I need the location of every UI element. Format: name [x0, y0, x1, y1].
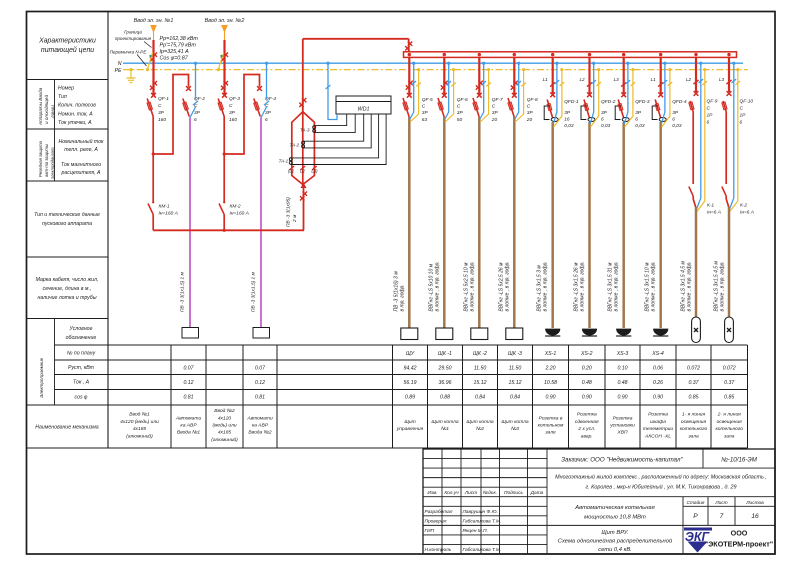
svg-text:cos φ: cos φ — [75, 395, 89, 401]
svg-text:1- я линия: 1- я линия — [682, 412, 706, 418]
svg-text:Лист: Лист — [714, 500, 727, 506]
svg-text:0.81: 0.81 — [183, 395, 193, 401]
svg-text:QF-10: QF-10 — [740, 99, 754, 105]
svg-text:авар.: авар. — [581, 434, 593, 439]
svg-text:№ по плану: № по плану — [67, 351, 96, 357]
svg-text:ЩК -3: ЩК -3 — [508, 351, 522, 357]
svg-text:Номер: Номер — [58, 86, 74, 92]
svg-text:50: 50 — [457, 117, 463, 123]
svg-text:0.12: 0.12 — [255, 380, 265, 386]
svg-text:(алюминий): (алюминий) — [211, 436, 238, 443]
svg-text:3Р: 3Р — [564, 110, 571, 116]
svg-text:Подпись: Подпись — [504, 490, 524, 496]
svg-text:Электроприемник: Электроприемник — [39, 357, 44, 398]
svg-text:Ввод №1: Ввод №1 — [129, 412, 150, 418]
svg-text:3Р: 3Р — [492, 110, 499, 116]
svg-text:установки: установки — [609, 424, 635, 429]
svg-text:в лотке , в тр. гофр.: в лотке , в тр. гофр. — [469, 261, 475, 311]
svg-text:0.07: 0.07 — [255, 366, 266, 372]
svg-text:зале: зале — [544, 431, 556, 436]
svg-text:20: 20 — [491, 117, 498, 123]
svg-text:в лотке , в тр. гофр.: в лотке , в тр. гофр. — [651, 261, 657, 311]
svg-text:ХS-4: ХS-4 — [651, 351, 664, 357]
svg-text:Многоэтажный жилой комплекс ,: Многоэтажный жилой комплекс , расположен… — [555, 474, 767, 481]
svg-text:6: 6 — [601, 117, 604, 123]
svg-text:0,03: 0,03 — [635, 123, 645, 129]
svg-text:N: N — [118, 61, 122, 67]
svg-text:QF-6: QF-6 — [457, 97, 468, 103]
svg-text:10.58: 10.58 — [544, 380, 557, 386]
svg-text:С: С — [707, 106, 711, 112]
svg-text:0.37: 0.37 — [724, 380, 735, 386]
svg-text:4х185: 4х185 — [133, 426, 147, 432]
svg-text:0.88: 0.88 — [440, 395, 450, 401]
svg-text:0,03: 0,03 — [601, 123, 611, 129]
svg-text:3Р: 3Р — [158, 110, 165, 116]
svg-text:WD1: WD1 — [358, 107, 370, 113]
svg-text:Габсаликова Т.М.: Габсаликова Т.М. — [463, 518, 502, 524]
svg-text:L3: L3 — [614, 77, 620, 82]
svg-text:0.072: 0.072 — [687, 366, 700, 372]
svg-text:3Р: 3Р — [422, 110, 429, 116]
svg-text:7: 7 — [720, 513, 724, 520]
svg-text:20: 20 — [526, 117, 533, 123]
svg-text:L1: L1 — [543, 77, 549, 82]
svg-text:ПВ -3 3(1х95): ПВ -3 3(1х95) — [286, 197, 292, 227]
svg-text:2 х усл.: 2 х усл. — [577, 426, 595, 432]
svg-text:0.90: 0.90 — [582, 395, 592, 401]
svg-text:С: С — [422, 104, 426, 110]
svg-text:в лотке , в тр. гофр.: в лотке , в тр. гофр. — [434, 261, 440, 311]
svg-text:ХS-2: ХS-2 — [580, 351, 593, 357]
svg-text:Iр=325,41 А: Iр=325,41 А — [160, 49, 190, 55]
svg-text:в лотке , в тр. гофр.: в лотке , в тр. гофр. — [543, 261, 549, 311]
svg-text:№1: №1 — [441, 426, 449, 432]
svg-text:L3: L3 — [719, 77, 725, 82]
svg-text:L2: L2 — [300, 169, 305, 174]
svg-text:Рр=162,38 кВт: Рр=162,38 кВт — [160, 36, 199, 42]
svg-text:С: С — [740, 106, 744, 112]
svg-text:С: С — [457, 104, 461, 110]
svg-text:мощностью 10,8 МВт: мощностью 10,8 МВт — [584, 515, 646, 521]
svg-text:К-1: К-1 — [707, 203, 714, 209]
svg-text:0.12: 0.12 — [183, 380, 193, 386]
svg-text:зала: зала — [723, 434, 735, 439]
svg-text:АКСОН -XL: АКСОН -XL — [644, 433, 671, 439]
svg-text:6: 6 — [635, 117, 638, 123]
svg-text:0.84: 0.84 — [475, 395, 485, 401]
svg-text:ТА-3: ТА-3 — [300, 128, 310, 133]
svg-text:(алюминий): (алюминий) — [126, 432, 153, 439]
svg-text:Н.контроль: Н.контроль — [425, 547, 452, 553]
svg-text:6: 6 — [672, 117, 675, 123]
svg-text:16: 16 — [751, 513, 759, 520]
svg-text:тепл. реле, А: тепл. реле, А — [64, 147, 98, 153]
svg-text:Розетка в: Розетка в — [539, 415, 563, 421]
svg-text:Ввод №2: Ввод №2 — [214, 408, 235, 414]
svg-text:Лист: Лист — [464, 490, 477, 496]
svg-text:ХВП: ХВП — [616, 430, 628, 436]
svg-text:Кол.уч: Кол.уч — [444, 490, 459, 496]
svg-text:3Р: 3Р — [672, 110, 679, 116]
svg-text:Ток магнитного: Ток магнитного — [61, 162, 101, 168]
svg-text:QF-1: QF-1 — [158, 96, 169, 102]
svg-text:котельного: котельного — [715, 427, 743, 432]
svg-text:питающей цепи: питающей цепи — [41, 46, 94, 54]
svg-text:3Р: 3Р — [527, 110, 534, 116]
svg-text:ХS-3: ХS-3 — [616, 351, 629, 357]
svg-text:Листов: Листов — [745, 500, 764, 506]
svg-text:Щит котла: Щит котла — [501, 419, 528, 425]
svg-text:Iн=6 А: Iн=6 А — [740, 210, 754, 216]
svg-text:11.50: 11.50 — [509, 366, 522, 372]
svg-text:3Р: 3Р — [229, 110, 236, 116]
svg-text:КМ-2: КМ-2 — [230, 204, 241, 210]
svg-text:электродвигат.: электродвигат. — [50, 146, 55, 179]
svg-text:Заказчик: ООО "Недвижимость-ка: Заказчик: ООО "Недвижимость-капитал" — [561, 457, 683, 464]
svg-text:L3): L3) — [311, 169, 318, 174]
svg-text:0.90: 0.90 — [617, 395, 627, 401]
svg-text:ка АВР: ка АВР — [252, 423, 269, 429]
svg-text:телеметрии: телеметрии — [643, 427, 674, 432]
svg-text:Ввода №2: Ввода №2 — [248, 430, 272, 436]
svg-text:С: С — [527, 104, 531, 110]
svg-text:№док.: №док. — [483, 490, 497, 496]
svg-text:расцепителя, А: расцепителя, А — [60, 170, 101, 176]
svg-text:QF-9: QF-9 — [707, 99, 718, 105]
svg-text:Изм.: Изм. — [427, 490, 437, 496]
svg-text:160: 160 — [229, 117, 237, 123]
svg-text:4х120: 4х120 — [218, 415, 232, 421]
svg-text:№-10/16-ЭМ: №-10/16-ЭМ — [721, 457, 758, 464]
svg-text:0.10: 0.10 — [617, 366, 627, 372]
svg-text:0.37: 0.37 — [688, 380, 699, 386]
svg-text:0.89: 0.89 — [405, 395, 415, 401]
svg-text:С: С — [492, 104, 496, 110]
svg-text:0.07: 0.07 — [183, 366, 194, 372]
svg-text:QF-5: QF-5 — [422, 97, 433, 103]
svg-text:в лотке , в тр. гофр.: в лотке , в тр. гофр. — [614, 261, 620, 311]
svg-text:ГИП: ГИП — [425, 528, 435, 534]
svg-text:С: С — [229, 103, 233, 109]
svg-text:3Р: 3Р — [265, 110, 272, 116]
svg-text:Рр'=75,79 кВт: Рр'=75,79 кВт — [160, 43, 197, 49]
svg-text:94.42: 94.42 — [404, 366, 417, 372]
svg-text:2- я линия: 2- я линия — [717, 412, 742, 418]
svg-text:зала: зала — [687, 434, 699, 439]
svg-text:3Р: 3Р — [457, 110, 464, 116]
svg-text:проектирования: проектирования — [115, 36, 152, 41]
svg-text:0.20: 0.20 — [582, 366, 592, 372]
svg-text:16: 16 — [564, 117, 570, 123]
svg-text:2 м: 2 м — [292, 214, 298, 223]
svg-text:1Р: 1Р — [740, 113, 747, 119]
svg-text:1Р: 1Р — [707, 113, 714, 119]
svg-text:0.26: 0.26 — [653, 380, 663, 386]
svg-text:QFD-1: QFD-1 — [564, 99, 579, 105]
svg-text:Розетка: Розетка — [577, 412, 597, 418]
svg-text:управления: управления — [396, 427, 424, 432]
svg-text:QFD-2: QFD-2 — [601, 99, 616, 105]
svg-text:PE: PE — [115, 68, 122, 74]
svg-text:Щит ВРУ.: Щит ВРУ. — [601, 530, 628, 536]
svg-text:Щит: Щит — [404, 419, 415, 425]
svg-text:ООО: ООО — [731, 529, 748, 538]
svg-text:4х120 (медь) или: 4х120 (медь) или — [120, 419, 159, 425]
svg-text:15.12: 15.12 — [474, 380, 487, 386]
svg-text:Граница: Граница — [124, 30, 142, 35]
svg-text:К-2: К-2 — [740, 203, 747, 209]
svg-text:L1: L1 — [651, 77, 657, 82]
svg-text:15.12: 15.12 — [509, 380, 522, 386]
svg-text:Стадия: Стадия — [687, 500, 705, 506]
svg-text:Ток , А: Ток , А — [73, 380, 90, 386]
svg-text:56.19: 56.19 — [404, 380, 417, 386]
svg-text:ТА-1: ТА-1 — [279, 159, 289, 164]
svg-text:ЩК -2: ЩК -2 — [473, 351, 487, 357]
svg-text:Марка кабеля, число жил,: Марка кабеля, число жил, — [36, 277, 99, 283]
svg-text:Характеристики: Характеристики — [38, 38, 96, 45]
svg-text:6: 6 — [265, 117, 268, 123]
svg-text:Лаврушин Ф.Ю.: Лаврушин Ф.Ю. — [462, 509, 498, 515]
svg-text:обозначение: обозначение — [66, 335, 97, 341]
svg-text:36.96: 36.96 — [439, 380, 452, 386]
svg-text:ХS-1: ХS-1 — [544, 351, 557, 357]
svg-text:0.85: 0.85 — [688, 395, 698, 401]
svg-text:№3: №3 — [511, 426, 519, 432]
svg-text:(L1: (L1 — [288, 169, 295, 174]
svg-text:г. Королев , мкр-н Юбилейный ,: г. Королев , мкр-н Юбилейный , ул. М.К. … — [586, 484, 737, 491]
svg-text:ка АВР: ка АВР — [180, 423, 197, 429]
svg-text:котельном: котельном — [538, 424, 564, 429]
svg-text:QF-7: QF-7 — [492, 97, 503, 103]
svg-text:Аппараты Ввода: Аппараты Ввода — [38, 87, 43, 126]
svg-text:№2: №2 — [476, 426, 484, 432]
svg-text:Тип и технические данные: Тип и технические данные — [34, 212, 100, 218]
svg-text:ТА-2: ТА-2 — [290, 143, 300, 148]
svg-text:Схема однолинейная распределит: Схема однолинейная распределительной — [558, 538, 673, 545]
svg-text:ЩУ: ЩУ — [406, 351, 415, 357]
svg-text:(медь) или: (медь) или — [212, 423, 236, 429]
svg-text:Проверил: Проверил — [425, 518, 447, 524]
svg-text:6: 6 — [194, 117, 197, 123]
svg-text:линии: линии — [50, 105, 55, 119]
svg-text:Номин. ток, А: Номин. ток, А — [58, 111, 93, 117]
svg-text:0.48: 0.48 — [617, 380, 627, 386]
svg-text:Номинальный ток: Номинальный ток — [58, 138, 104, 145]
svg-text:L2: L2 — [579, 77, 585, 82]
svg-text:Руст, кВт: Руст, кВт — [68, 365, 95, 371]
svg-text:Габсаликова Т.М.: Габсаликова Т.М. — [463, 547, 502, 553]
svg-text:0.90: 0.90 — [653, 395, 663, 401]
svg-text:Iн=160 А: Iн=160 А — [159, 211, 178, 217]
svg-text:Колич. полюсов: Колич. полюсов — [58, 103, 96, 109]
svg-text:сечение, длина в м.,: сечение, длина в м., — [43, 286, 92, 292]
svg-text:0.072: 0.072 — [723, 366, 736, 372]
svg-text:освещения: освещения — [681, 420, 707, 425]
svg-text:Перемычка N-PE: Перемычка N-PE — [110, 50, 148, 55]
svg-text:Наименование механизма: Наименование механизма — [35, 425, 99, 431]
svg-text:сдвоенная: сдвоенная — [575, 419, 599, 425]
svg-text:0.84: 0.84 — [510, 395, 520, 401]
svg-text:пускового аппарата: пускового аппарата — [42, 221, 92, 227]
svg-text:наличие лотка и трубы: наличие лотка и трубы — [37, 295, 96, 301]
svg-text:Автомати: Автомати — [175, 415, 202, 421]
svg-text:сети 0,4 кВ.: сети 0,4 кВ. — [598, 547, 632, 553]
svg-text:0.48: 0.48 — [582, 380, 592, 386]
svg-text:в лотке , в тр. гофр.: в лотке , в тр. гофр. — [687, 261, 693, 311]
svg-text:КМ-1: КМ-1 — [159, 204, 170, 210]
svg-text:котельного: котельного — [680, 427, 708, 432]
svg-text:Розетка: Розетка — [613, 415, 633, 421]
svg-text:4х185: 4х185 — [218, 430, 232, 436]
svg-text:63: 63 — [422, 117, 428, 123]
svg-text:11.50: 11.50 — [474, 366, 487, 372]
svg-text:3Р: 3Р — [635, 110, 642, 116]
svg-text:Щит котла: Щит котла — [431, 419, 458, 425]
svg-text:Р: Р — [693, 513, 698, 520]
svg-text:Автомати: Автомати — [246, 415, 273, 421]
svg-text:QF-3: QF-3 — [229, 96, 240, 102]
svg-text:L2: L2 — [686, 77, 692, 82]
svg-text:и отходящей: и отходящей — [43, 95, 49, 124]
svg-text:ЩК -1: ЩК -1 — [438, 351, 452, 357]
svg-text:Дата: Дата — [530, 490, 544, 496]
svg-text:Разработал: Разработал — [425, 509, 453, 515]
svg-text:6: 6 — [707, 120, 710, 126]
svg-text:0.06: 0.06 — [653, 366, 663, 372]
svg-text:Ввод эл. эн. №2: Ввод эл. эн. №2 — [205, 18, 245, 24]
svg-text:QFD-3: QFD-3 — [635, 99, 650, 105]
svg-text:Ток утечки, А: Ток утечки, А — [58, 120, 92, 126]
svg-text:0,03: 0,03 — [564, 123, 574, 129]
svg-text:0,03: 0,03 — [672, 123, 682, 129]
svg-text:160: 160 — [158, 117, 166, 123]
svg-text:Cos φ=0.87: Cos φ=0.87 — [160, 56, 189, 62]
svg-text:Ввод эл. эн. №1: Ввод эл. эн. №1 — [134, 18, 174, 24]
svg-text:освещения: освещения — [717, 420, 743, 425]
svg-text:в тр. гофр.: в тр. гофр. — [399, 284, 405, 311]
svg-text:Условное: Условное — [70, 326, 93, 332]
svg-text:Iн=6 А: Iн=6 А — [707, 210, 721, 216]
svg-text:Щит котла: Щит котла — [466, 419, 493, 425]
svg-text:Тип: Тип — [58, 94, 67, 100]
svg-text:Ввода №1: Ввода №1 — [177, 430, 201, 436]
svg-text:Розетка: Розетка — [648, 412, 668, 418]
svg-text:2.20: 2.20 — [544, 366, 555, 372]
svg-text:3Р: 3Р — [194, 110, 201, 116]
svg-text:в лотке , в тр. гофр.: в лотке , в тр. гофр. — [504, 261, 510, 311]
svg-text:Iн=160 А: Iн=160 А — [230, 211, 249, 217]
svg-text:0.81: 0.81 — [255, 395, 265, 401]
svg-text:шкафа: шкафа — [650, 419, 666, 425]
svg-text:QFD-4: QFD-4 — [672, 99, 687, 105]
svg-text:в лотке , в тр. гофр.: в лотке , в тр. гофр. — [580, 261, 586, 311]
svg-text:Янцен М.П.: Янцен М.П. — [462, 528, 488, 534]
svg-text:"ЭКОТЕРМ-проект": "ЭКОТЕРМ-проект" — [705, 540, 773, 549]
svg-text:в лотке , в тр. гофр.: в лотке , в тр. гофр. — [720, 261, 726, 311]
svg-text:3Р: 3Р — [601, 110, 608, 116]
svg-text:6: 6 — [740, 120, 743, 126]
svg-text:0.85: 0.85 — [724, 395, 734, 401]
svg-text:0.90: 0.90 — [545, 395, 555, 401]
svg-text:ПВ -3 3(1х1,5) 1 м: ПВ -3 3(1х1,5) 1 м — [180, 271, 186, 312]
svg-text:29.50: 29.50 — [438, 366, 452, 372]
svg-text:ПВ -3 3(1х1,5) 1 м: ПВ -3 3(1х1,5) 1 м — [251, 271, 257, 312]
svg-text:QF-8: QF-8 — [527, 97, 538, 103]
svg-text:С: С — [158, 103, 162, 109]
svg-text:авт-та защиты: авт-та защиты — [44, 144, 49, 177]
svg-text:Релейная защита: Релейная защита — [38, 140, 43, 177]
svg-text:Автоматическая котельная: Автоматическая котельная — [574, 505, 654, 511]
